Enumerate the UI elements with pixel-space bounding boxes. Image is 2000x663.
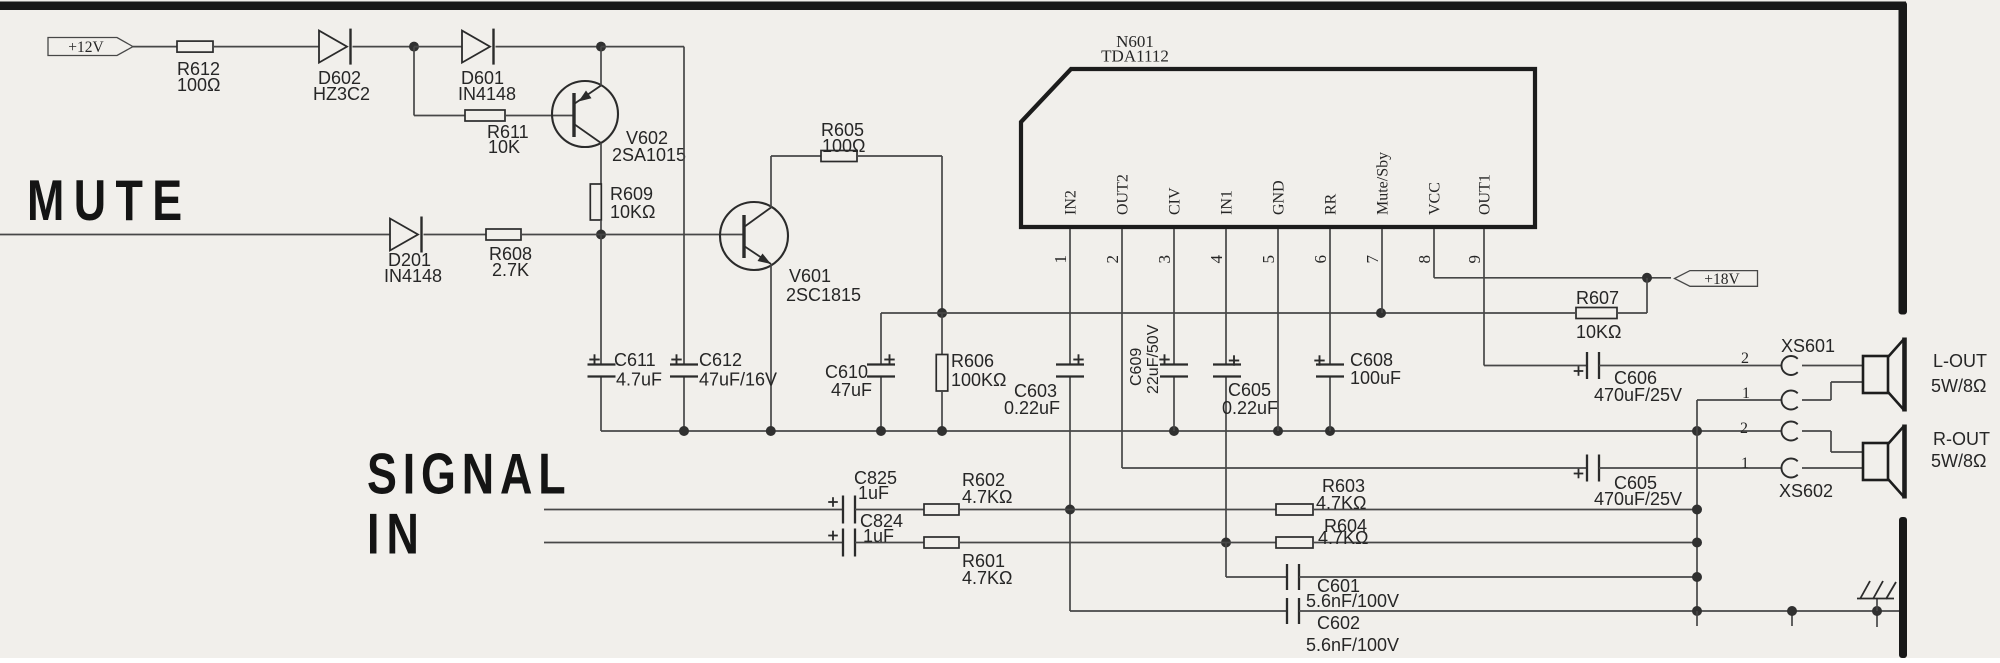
- svg-text:4.7uF: 4.7uF: [616, 370, 662, 390]
- svg-text:2SC1815: 2SC1815: [786, 285, 861, 305]
- svg-text:XS601: XS601: [1781, 336, 1835, 356]
- svg-text:1uF: 1uF: [863, 526, 894, 546]
- svg-text:C608: C608: [1350, 350, 1393, 370]
- svg-text:V601: V601: [789, 266, 831, 286]
- svg-text:IN: IN: [367, 501, 426, 566]
- svg-text:2.7K: 2.7K: [492, 260, 529, 280]
- svg-text:0.22uF: 0.22uF: [1004, 398, 1060, 418]
- svg-text:100Ω: 100Ω: [177, 75, 221, 95]
- svg-text:4: 4: [1207, 255, 1226, 264]
- svg-text:CIV: CIV: [1167, 187, 1184, 215]
- svg-text:C611: C611: [614, 350, 656, 370]
- svg-text:L-OUT: L-OUT: [1933, 351, 1987, 371]
- svg-text:1: 1: [1742, 385, 1750, 402]
- svg-text:2: 2: [1103, 255, 1122, 264]
- svg-text:100Ω: 100Ω: [822, 136, 866, 156]
- svg-text:5W/8Ω: 5W/8Ω: [1931, 451, 1986, 471]
- svg-text:1: 1: [1051, 255, 1070, 264]
- svg-text:5: 5: [1259, 255, 1278, 264]
- svg-text:R607: R607: [1576, 288, 1619, 308]
- svg-text:RR: RR: [1323, 193, 1340, 215]
- svg-text:10KΩ: 10KΩ: [1576, 322, 1621, 342]
- svg-text:3: 3: [1155, 255, 1174, 264]
- svg-text:C610: C610: [825, 362, 868, 382]
- svg-text:2: 2: [1740, 420, 1748, 437]
- svg-text:IN1: IN1: [1219, 190, 1236, 215]
- svg-text:C602: C602: [1317, 613, 1360, 633]
- svg-text:C609: C609: [1128, 348, 1145, 386]
- svg-text:C605: C605: [1228, 380, 1271, 400]
- svg-text:2: 2: [1741, 350, 1749, 367]
- svg-text:SIGNAL: SIGNAL: [367, 441, 571, 506]
- svg-text:4.7KΩ: 4.7KΩ: [962, 568, 1012, 588]
- svg-text:OUT2: OUT2: [1115, 174, 1132, 215]
- svg-text:470uF/25V: 470uF/25V: [1594, 489, 1682, 509]
- svg-text:IN4148: IN4148: [384, 266, 442, 286]
- svg-text:1: 1: [1741, 455, 1749, 472]
- svg-text:4.7KΩ: 4.7KΩ: [1316, 493, 1366, 513]
- svg-text:HZ3C2: HZ3C2: [313, 84, 370, 104]
- svg-text:2SA1015: 2SA1015: [612, 145, 686, 165]
- svg-text:4.7KΩ: 4.7KΩ: [962, 487, 1012, 507]
- svg-text:OUT1: OUT1: [1477, 174, 1494, 215]
- svg-text:GND: GND: [1271, 180, 1288, 215]
- svg-text:47uF: 47uF: [831, 380, 872, 400]
- svg-text:TDA1112: TDA1112: [1101, 47, 1169, 66]
- svg-text:10KΩ: 10KΩ: [610, 202, 655, 222]
- svg-text:10K: 10K: [488, 137, 520, 157]
- svg-text:100uF: 100uF: [1350, 368, 1401, 388]
- svg-text:+12V: +12V: [68, 39, 104, 56]
- svg-text:1uF: 1uF: [858, 483, 889, 503]
- svg-text:Mute/Sby: Mute/Sby: [1375, 152, 1392, 215]
- svg-text:470uF/25V: 470uF/25V: [1594, 385, 1682, 405]
- svg-text:7: 7: [1363, 255, 1382, 264]
- svg-text:5.6nF/100V: 5.6nF/100V: [1306, 635, 1399, 655]
- svg-text:6: 6: [1311, 255, 1330, 264]
- svg-text:MUTE: MUTE: [27, 168, 191, 233]
- svg-text:R-OUT: R-OUT: [1933, 429, 1990, 449]
- svg-text:4.7KΩ: 4.7KΩ: [1318, 528, 1368, 548]
- svg-text:IN4148: IN4148: [458, 84, 516, 104]
- svg-text:100KΩ: 100KΩ: [951, 370, 1007, 390]
- svg-text:+18V: +18V: [1704, 271, 1740, 288]
- svg-text:XS602: XS602: [1779, 481, 1833, 501]
- svg-text:0.22uF: 0.22uF: [1222, 398, 1278, 418]
- svg-text:IN2: IN2: [1063, 190, 1080, 215]
- svg-text:C612: C612: [699, 350, 742, 370]
- svg-text:R609: R609: [610, 184, 653, 204]
- svg-text:5W/8Ω: 5W/8Ω: [1931, 376, 1986, 396]
- svg-text:R606: R606: [951, 351, 994, 371]
- svg-text:5.6nF/100V: 5.6nF/100V: [1306, 591, 1399, 611]
- svg-text:VCC: VCC: [1427, 182, 1444, 215]
- svg-text:47uF/16V: 47uF/16V: [699, 370, 777, 390]
- svg-text:22uF/50V: 22uF/50V: [1145, 324, 1162, 394]
- svg-text:8: 8: [1415, 255, 1434, 264]
- svg-text:9: 9: [1465, 255, 1484, 264]
